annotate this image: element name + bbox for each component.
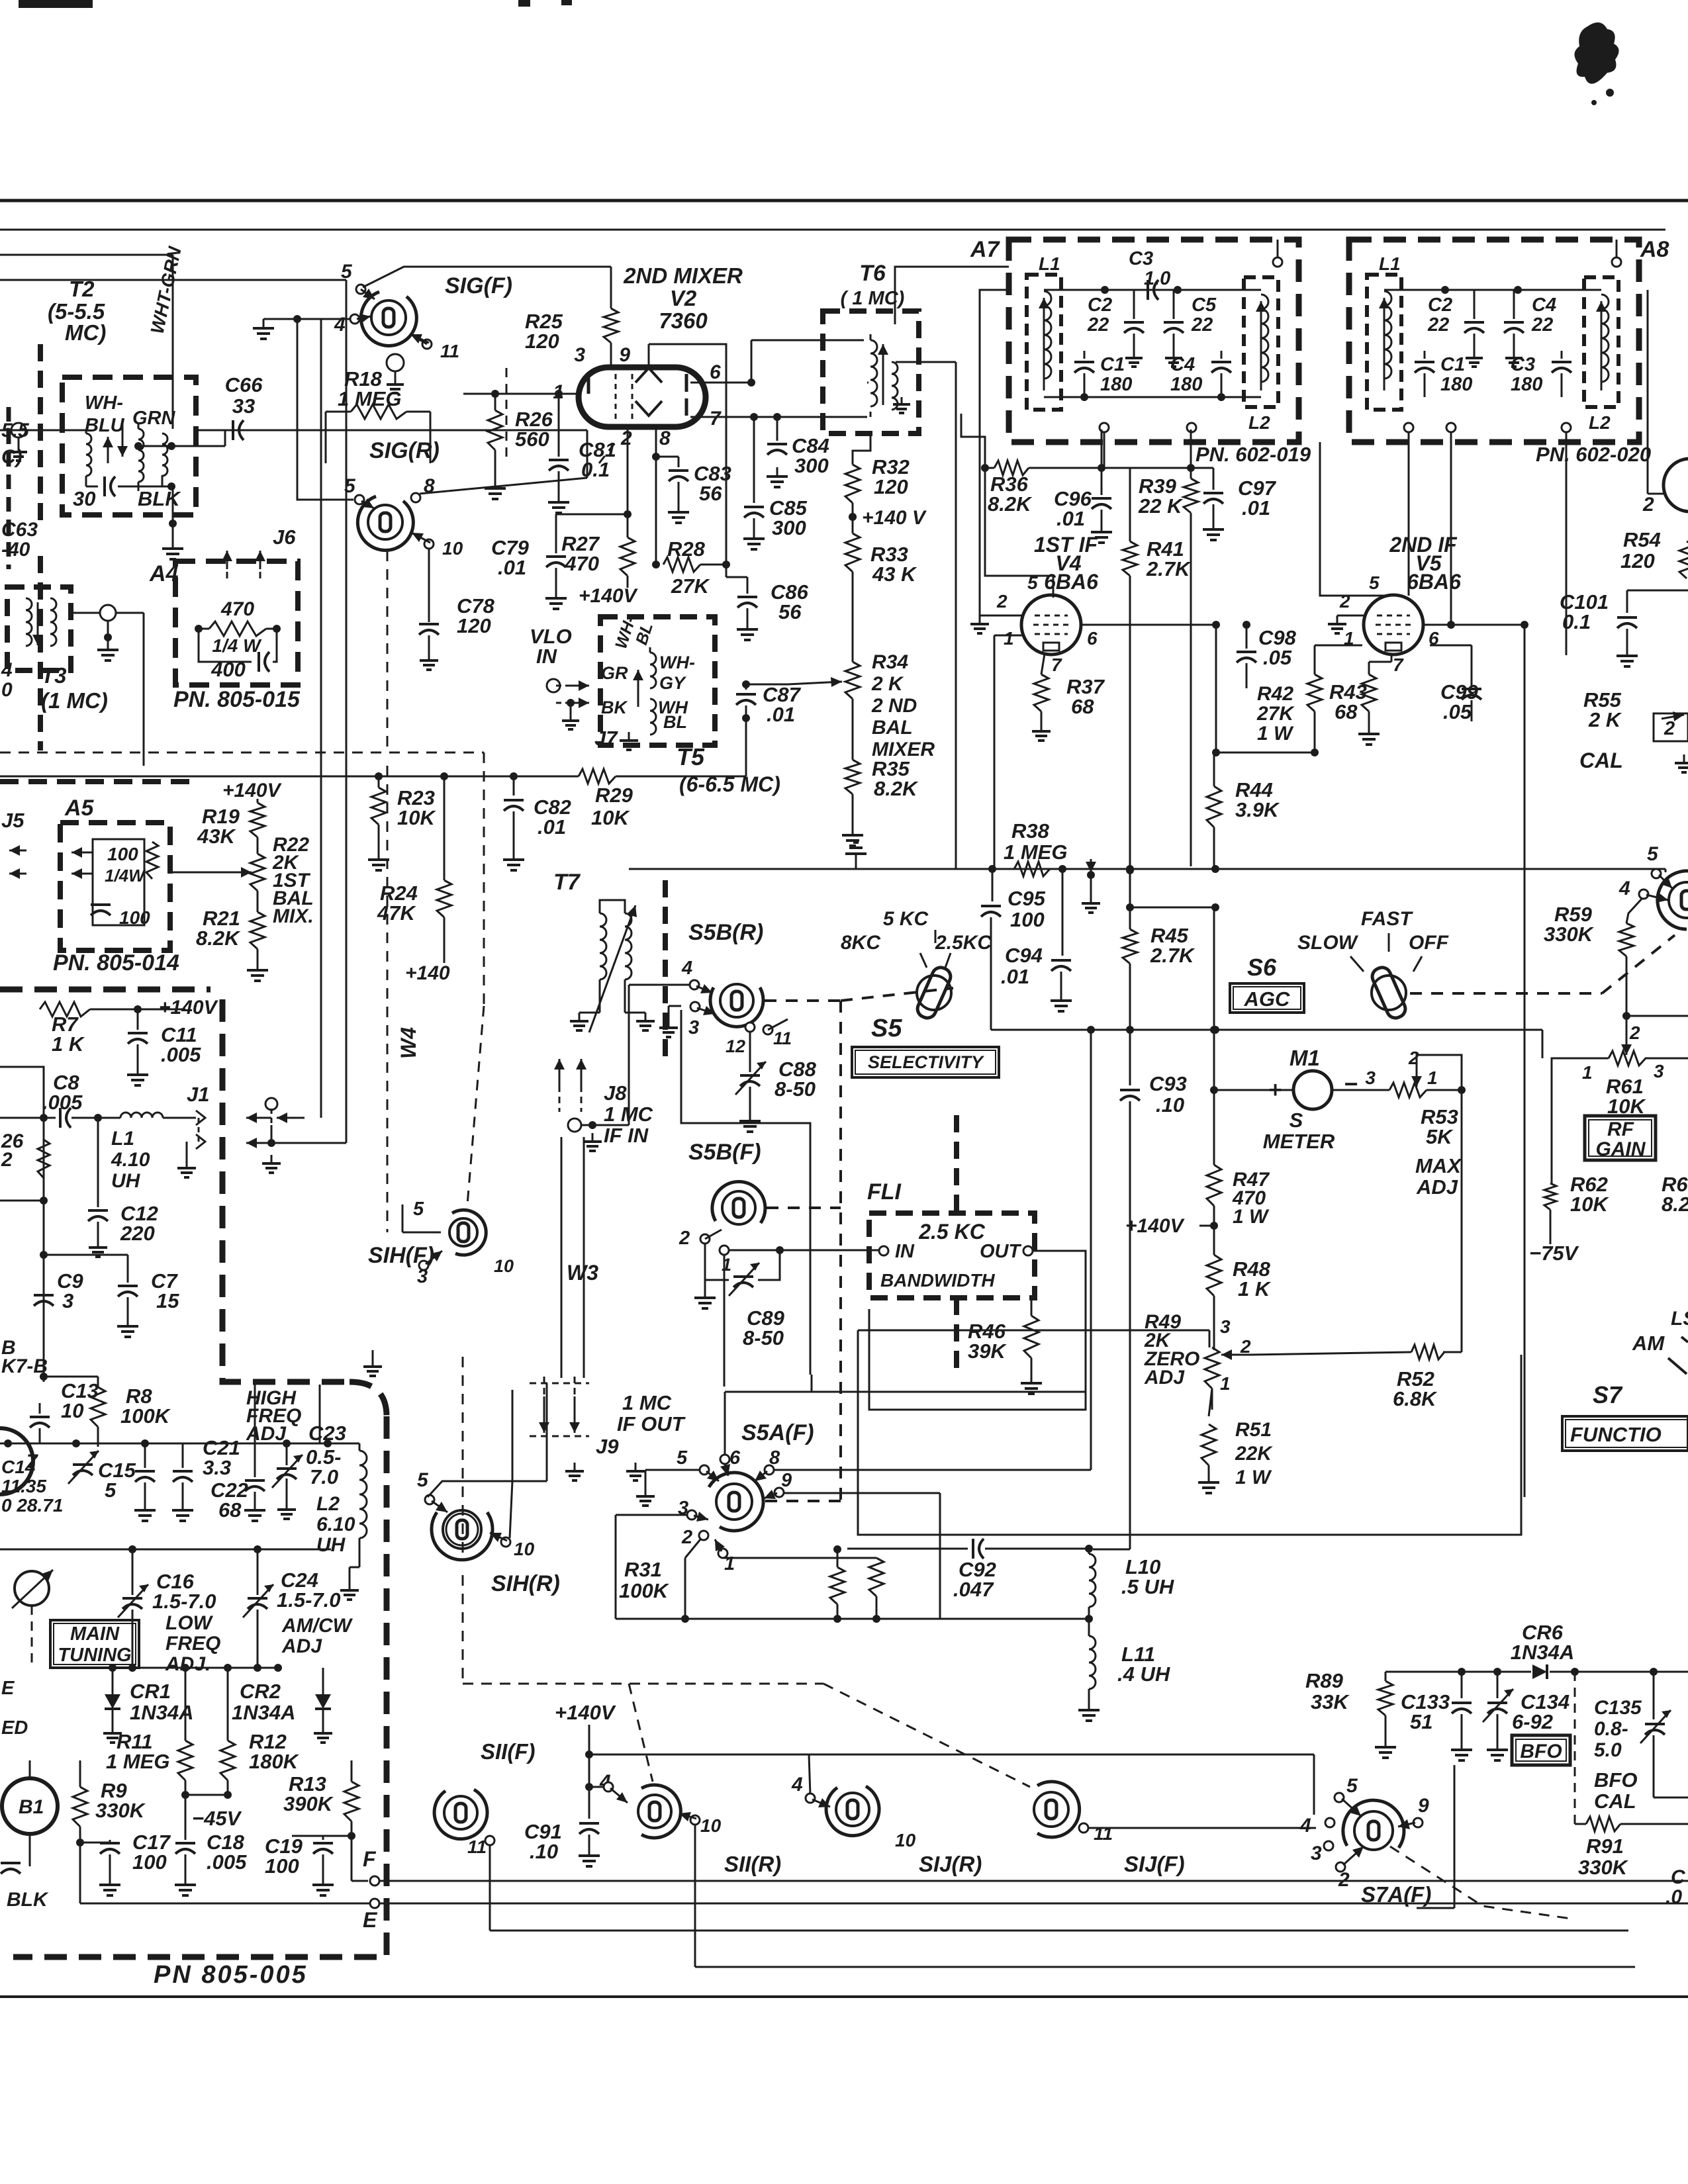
svg-text:ADJ: ADJ — [1144, 1367, 1185, 1388]
svg-text:IF OUT: IF OUT — [617, 1412, 686, 1435]
label +140V S1I — [555, 1701, 616, 1724]
svg-text:FAST: FAST — [1361, 908, 1413, 930]
wire A8 term down 3 — [1566, 432, 1568, 655]
capacitor C1 A7 — [1074, 351, 1094, 397]
ground J9 — [565, 1463, 645, 1480]
svg-text:AM/CW: AM/CW — [281, 1615, 353, 1637]
svg-text:ADJ.: ADJ. — [165, 1653, 211, 1675]
svg-text:.01: .01 — [538, 815, 566, 839]
svg-text:IN: IN — [895, 1241, 915, 1262]
svg-text:SIJ(F): SIJ(F) — [1124, 1852, 1185, 1876]
mech link S5 horiz — [765, 988, 953, 1001]
svg-text:+140V: +140V — [555, 1701, 616, 1724]
svg-text:330K: 330K — [1544, 923, 1595, 946]
resistor R19 — [250, 799, 265, 837]
svg-text:120: 120 — [525, 330, 559, 353]
svg-text:+140: +140 — [405, 962, 450, 984]
resistor R28 — [663, 557, 730, 572]
FUNCTION box — [1562, 1416, 1688, 1451]
svg-text:100K: 100K — [619, 1579, 670, 1602]
svg-text:5: 5 — [417, 1469, 429, 1491]
svg-text:.10: .10 — [530, 1840, 558, 1863]
rotary S1I(R) — [638, 1785, 680, 1838]
svg-text:1 K: 1 K — [1238, 1277, 1272, 1300]
label C96 .01 — [1054, 487, 1092, 530]
ground AGC bus upstub — [845, 842, 867, 869]
label J9 — [596, 1435, 619, 1458]
label C83 56 — [694, 462, 731, 505]
label BLK — [138, 487, 181, 510]
RF GAIN box — [1585, 1116, 1656, 1160]
svg-text:.005: .005 — [207, 1850, 247, 1874]
svg-text:22: 22 — [1191, 314, 1213, 336]
resistor R54 — [1679, 541, 1688, 578]
ground C134 — [1487, 1741, 1508, 1760]
svg-text:5: 5 — [413, 1199, 424, 1220]
jack J1 — [196, 1111, 205, 1149]
transformer T2 box — [62, 377, 196, 515]
capacitor C82 — [504, 776, 524, 850]
label -75V — [1529, 1242, 1579, 1265]
svg-text:−45V: −45V — [192, 1807, 242, 1830]
label BL — [663, 712, 687, 732]
terminal E — [370, 1899, 1688, 1908]
svg-text:.005: .005 — [42, 1091, 83, 1114]
svg-text:R89: R89 — [1305, 1669, 1344, 1692]
resistor 470 1/4W in A4 — [199, 621, 277, 636]
svg-text:8.2K: 8.2K — [988, 492, 1033, 516]
jack W4 mate — [246, 1098, 281, 1173]
inductor L2 in A7 — [1244, 277, 1278, 407]
svg-text:5: 5 — [677, 1447, 688, 1469]
inductor L10 — [1089, 1549, 1096, 1607]
svg-text:68: 68 — [1335, 700, 1358, 723]
resistor R33 — [845, 533, 860, 662]
svg-text:390K: 390K — [283, 1792, 334, 1815]
label C7 15 — [151, 1269, 179, 1312]
label fragment B X7-B — [1, 1337, 48, 1377]
label OFF — [1409, 932, 1449, 954]
svg-text:T3: T3 — [41, 663, 67, 688]
svg-text:2.7K: 2.7K — [1150, 944, 1196, 967]
svg-text:C14: C14 — [1, 1457, 36, 1477]
resistor R32 — [845, 465, 860, 533]
terminals S7AF — [1324, 1793, 1423, 1872]
resistor R41 — [1123, 468, 1137, 905]
svg-text:2: 2 — [679, 1228, 690, 1249]
label R27 470 — [561, 532, 600, 575]
module A8 box — [1349, 240, 1639, 442]
svg-text:C4: C4 — [1532, 295, 1556, 316]
label L1 A7 — [1039, 253, 1060, 274]
mech link T7 — [663, 880, 668, 1059]
svg-text:C5: C5 — [1192, 295, 1217, 316]
label R54 120 — [1620, 528, 1661, 572]
label C1 180 A7 — [1100, 354, 1132, 395]
terminal S1JR 4 — [806, 1794, 830, 1807]
wire into T2 — [0, 430, 86, 432]
terminal S5BF 1 — [720, 1246, 731, 1275]
svg-text:300: 300 — [772, 516, 806, 539]
label T2 — [48, 277, 106, 345]
svg-text:.05: .05 — [1263, 646, 1292, 669]
wire C66 run — [196, 430, 587, 432]
label PN PN. 602-019 — [1196, 443, 1311, 466]
wire W4 — [255, 319, 321, 1443]
wire J8 up — [628, 985, 630, 1125]
coax W3 J8 to J9 — [561, 1137, 584, 1378]
svg-text:CR1: CR1 — [130, 1680, 171, 1703]
svg-text:33K: 33K — [1311, 1690, 1350, 1713]
knob ticks S6 — [1350, 933, 1422, 972]
wire SIG(F) pin5 up — [363, 267, 611, 287]
svg-text:R54: R54 — [1623, 528, 1661, 551]
box around R46 — [869, 1297, 1086, 1410]
svg-text:R91: R91 — [1586, 1835, 1624, 1858]
svg-text:RF: RF — [1607, 1118, 1634, 1140]
label WH-GY — [659, 653, 695, 693]
svg-text:5: 5 — [344, 475, 356, 497]
wire meter left — [1210, 907, 1389, 1094]
svg-text:5: 5 — [1346, 1775, 1358, 1797]
svg-text:S5B(R): S5B(R) — [688, 920, 763, 945]
bold dashed left box bottom — [0, 779, 190, 784]
label 2ND IF V5 6BA6 — [1389, 533, 1461, 594]
rotary S7A(F) — [1343, 1800, 1404, 1850]
wire x826 up — [546, 1383, 548, 1481]
dashed arrows J9 — [530, 1377, 589, 1436]
label SII(R) — [724, 1852, 781, 1876]
svg-text:CAL: CAL — [1579, 749, 1623, 772]
arrow T2 down — [117, 424, 128, 457]
label 2ND MIXER V2 7360 — [623, 263, 743, 333]
capacitor C87 — [736, 680, 756, 722]
variable cap main — [12, 1570, 53, 1608]
wire E left — [80, 1843, 370, 1903]
jack J5 arrows — [9, 845, 26, 879]
wire F — [352, 1836, 368, 1881]
resistor R11 — [178, 1668, 193, 1799]
svg-text:5.5: 5.5 — [1, 420, 30, 441]
label OUT — [980, 1241, 1022, 1262]
label R41 2.7K — [1146, 537, 1192, 580]
label C82 .01 — [534, 796, 571, 839]
ground C89 — [694, 1289, 716, 1308]
label +140V R7 — [159, 997, 219, 1019]
module A4 box — [175, 561, 298, 685]
resistor R42 — [1307, 645, 1362, 752]
label C17 100 — [132, 1831, 171, 1874]
label R35 8.2K — [872, 757, 919, 800]
ground S5BR — [659, 1006, 681, 1037]
label LOW FREQ ADJ. — [165, 1612, 220, 1675]
label C5 22 A7 — [1191, 295, 1217, 336]
label R37 68 — [1066, 675, 1105, 718]
svg-text:L2: L2 — [1589, 412, 1611, 433]
svg-text:1 W: 1 W — [1235, 1467, 1272, 1488]
svg-text:MAIN: MAIN — [70, 1623, 120, 1645]
terminals A7 — [1100, 257, 1282, 432]
svg-text:+140V: +140V — [579, 585, 639, 607]
svg-text:C3: C3 — [1129, 248, 1153, 269]
label R39 22K — [1138, 475, 1184, 518]
label BFO CAL — [1594, 1768, 1637, 1813]
label BFO — [1520, 1741, 1562, 1762]
wire A8 term down 2 — [1450, 432, 1452, 625]
label R53 5K — [1421, 1105, 1458, 1148]
svg-text:39K: 39K — [968, 1340, 1007, 1363]
ground R89 — [1375, 1738, 1396, 1758]
label 5 pin SIG(R) — [344, 475, 356, 497]
label R29 10K — [591, 784, 633, 829]
svg-text:.047: .047 — [953, 1578, 994, 1601]
resistor R46 — [1024, 1297, 1039, 1374]
capacitor C97 — [1191, 468, 1223, 520]
label C13 10 — [61, 1379, 99, 1422]
label L1 A8 — [1379, 253, 1401, 274]
label R61 10K — [1606, 1075, 1646, 1118]
inductor L1 in A7 — [1027, 275, 1061, 410]
svg-text:.5 UH: .5 UH — [1121, 1575, 1174, 1598]
svg-text:180: 180 — [1100, 374, 1132, 395]
label plus — [1268, 1077, 1282, 1103]
label 100 A5 — [119, 907, 150, 928]
resistor R22 pot — [170, 837, 265, 891]
label SIG(R) — [369, 438, 440, 463]
svg-text:5: 5 — [1027, 572, 1038, 593]
rotary S1H(F) — [449, 1210, 486, 1255]
wire FL1 out — [1033, 1251, 1086, 1297]
svg-text:R51: R51 — [1235, 1419, 1272, 1441]
wire right bottom — [1417, 1765, 1454, 1908]
capacitor C96 — [1092, 430, 1111, 523]
svg-text:L1: L1 — [111, 1128, 134, 1150]
capacitor C99 — [1462, 645, 1481, 721]
svg-text:.10: .10 — [1156, 1093, 1184, 1116]
wire A8 term down 1 — [1408, 432, 1410, 596]
svg-text:W4: W4 — [397, 1027, 420, 1059]
resistor R24 — [437, 776, 451, 963]
label S7 — [1593, 1381, 1623, 1408]
wire S5AF row — [725, 1375, 1086, 1455]
tube fragment bottom left — [0, 1428, 38, 1494]
label C101 0.1 — [1560, 590, 1609, 633]
label C16 1.5-7.0 — [152, 1570, 216, 1613]
svg-text:CR2: CR2 — [240, 1680, 281, 1703]
label IN — [895, 1241, 915, 1262]
label C11 .005 — [161, 1023, 201, 1066]
label R32 120 — [872, 455, 910, 498]
svg-text:C): C) — [1, 446, 23, 468]
label E — [363, 1908, 378, 1932]
svg-text:22K: 22K — [1235, 1443, 1273, 1465]
diode CR2 — [315, 1668, 331, 1725]
svg-text:3: 3 — [688, 1017, 699, 1038]
svg-text:WH-: WH- — [659, 653, 695, 672]
label R59 330K — [1544, 903, 1595, 946]
svg-text:PN. 805-014: PN. 805-014 — [53, 950, 179, 976]
svg-text:L2: L2 — [316, 1493, 340, 1515]
label 2.5 KC — [918, 1220, 985, 1244]
ground C88 — [739, 1112, 761, 1132]
label C78 120 — [457, 594, 495, 637]
svg-text:UH: UH — [111, 1170, 141, 1192]
label L11 .4 UH — [1117, 1643, 1170, 1686]
ground C19 — [312, 1876, 334, 1895]
wire R49 to R52 — [1250, 1352, 1411, 1355]
svg-text:SIG(R): SIG(R) — [369, 438, 440, 463]
svg-text:SELECTIVITY: SELECTIVITY — [868, 1052, 985, 1072]
label SLOW — [1297, 932, 1359, 954]
ground C82 — [503, 850, 524, 870]
svg-text:3: 3 — [1654, 1061, 1664, 1081]
svg-text:+140 V: +140 V — [862, 507, 927, 529]
label 4 S5B(R) — [681, 958, 692, 979]
svg-text:PN. 602-020: PN. 602-020 — [1536, 443, 1651, 466]
label S METER — [1263, 1109, 1335, 1153]
transformer T7 coils — [589, 905, 637, 1032]
label 10 S1HR — [514, 1539, 535, 1559]
wire V2 pin6 to T6 — [867, 382, 868, 384]
wire S5AF 8 — [774, 1026, 1095, 1470]
label 11 pin SIG(F) — [440, 341, 459, 361]
svg-text:2: 2 — [1, 1149, 13, 1171]
label 100 1/4W A5 — [105, 844, 146, 886]
svg-text:1 MEG: 1 MEG — [106, 1750, 169, 1773]
resistor R49 pot — [1205, 1347, 1250, 1410]
svg-text:2: 2 — [996, 591, 1008, 612]
svg-text:2 K: 2 K — [871, 673, 904, 695]
coil T2 primary — [86, 430, 98, 486]
resistor R51 — [1201, 1388, 1216, 1473]
rotary switch SIG(R) — [357, 496, 413, 550]
label T5 — [677, 743, 705, 770]
svg-text:CAL: CAL — [1594, 1790, 1636, 1813]
MAIN TUNING box — [50, 1620, 139, 1668]
label 1ST IF V4 6BA6 — [1034, 533, 1098, 594]
resistor R7 — [40, 1002, 185, 1017]
wire A8 top right — [1616, 240, 1618, 257]
wire S5BR4 left — [629, 984, 690, 986]
mech link S5BF — [767, 1206, 841, 1209]
resistor R35 — [845, 760, 860, 826]
svg-text:2: 2 — [620, 428, 632, 449]
label AM — [1632, 1308, 1688, 1355]
label R52 6.8K — [1393, 1367, 1438, 1410]
svg-text:ADJ: ADJ — [281, 1635, 322, 1657]
terminals S5AF — [687, 1455, 784, 1558]
label 8 pin SIG(R) — [424, 475, 435, 497]
svg-text:1 W: 1 W — [1233, 1206, 1270, 1228]
wire V5 out — [1423, 621, 1528, 645]
svg-text:BLK: BLK — [138, 487, 181, 510]
svg-text:2.5 KC: 2.5 KC — [918, 1220, 985, 1244]
svg-text:C: C — [1671, 1866, 1686, 1888]
pins R61 — [1582, 1023, 1664, 1083]
svg-text:4: 4 — [1618, 878, 1630, 899]
label R28 27K — [667, 537, 710, 598]
svg-text:.01: .01 — [767, 703, 795, 726]
inductor L11 — [1089, 1636, 1096, 1689]
svg-text:7360: 7360 — [659, 308, 708, 333]
label BK — [601, 698, 628, 717]
label 11 S1IF — [467, 1837, 487, 1857]
wire T2 internal — [118, 482, 171, 491]
svg-text:J9: J9 — [596, 1435, 619, 1458]
pins R49 — [1220, 1316, 1251, 1394]
terminals A8 — [1404, 257, 1621, 432]
svg-text:R28: R28 — [667, 537, 706, 561]
label W3 — [567, 1261, 598, 1285]
label A4 — [149, 561, 179, 586]
resistor R48 — [1207, 1255, 1221, 1350]
label J5 fragment — [1, 809, 24, 832]
svg-text:1.5-7.0: 1.5-7.0 — [152, 1590, 216, 1613]
svg-text:2: 2 — [1339, 591, 1350, 612]
svg-text:T2: T2 — [69, 277, 95, 301]
arrow T3 — [32, 602, 43, 645]
wire T6 top to A7 — [895, 267, 1009, 324]
border bottom line — [0, 1995, 1688, 1998]
svg-text:5K: 5K — [1426, 1125, 1454, 1148]
label AM/CW ADJ — [281, 1615, 353, 1657]
svg-text:5 KC: 5 KC — [883, 908, 929, 930]
svg-text:100: 100 — [132, 1850, 167, 1874]
svg-text:C2: C2 — [1088, 295, 1112, 316]
svg-text:C15: C15 — [98, 1459, 136, 1482]
svg-text:180: 180 — [1440, 374, 1472, 395]
ground V4 grid — [970, 615, 1021, 633]
wire T2 out right — [138, 430, 225, 446]
svg-text:9: 9 — [1418, 1795, 1429, 1817]
label FUNCTION — [1570, 1423, 1662, 1446]
svg-text:ED: ED — [1, 1717, 28, 1739]
label 5 S6A — [1647, 843, 1659, 865]
ground R21 — [247, 961, 268, 981]
left edge box fragment upper — [38, 344, 43, 751]
tube right edge — [1648, 290, 1688, 512]
ground C133 — [1451, 1741, 1472, 1760]
resistor R21 — [250, 891, 265, 961]
wire mid right — [858, 1330, 1521, 1535]
capacitor C13 — [30, 1403, 50, 1443]
svg-text:FLI: FLI — [867, 1179, 902, 1205]
terminal FL1 in — [879, 1246, 888, 1255]
svg-text:C2: C2 — [1428, 295, 1452, 316]
capacitor C81 — [549, 394, 569, 493]
svg-text:FREQ: FREQ — [165, 1633, 220, 1655]
resistor R38 — [1014, 862, 1050, 876]
resistor R23 — [371, 776, 386, 850]
label L1 4.10 UH — [111, 1128, 150, 1192]
label BANDWIDTH — [880, 1270, 995, 1291]
terminal F — [370, 1876, 1688, 1886]
trimmer C24 — [243, 1549, 273, 1668]
svg-text:10: 10 — [61, 1399, 83, 1422]
svg-text:W3: W3 — [567, 1261, 598, 1285]
svg-text:3: 3 — [62, 1289, 73, 1312]
label R fragment — [1, 1130, 24, 1171]
coil T3 primary — [26, 598, 32, 646]
capacitor C89 trimmer — [705, 1244, 780, 1296]
svg-text:15: 15 — [156, 1289, 179, 1312]
ground R51 — [1198, 1473, 1219, 1493]
label +140V meter — [1125, 1215, 1218, 1237]
resistor R59 — [1619, 897, 1688, 1054]
label CR1 1N34A — [130, 1680, 194, 1724]
inner structure A5 — [93, 839, 144, 925]
wire CR rail — [86, 1664, 282, 1672]
